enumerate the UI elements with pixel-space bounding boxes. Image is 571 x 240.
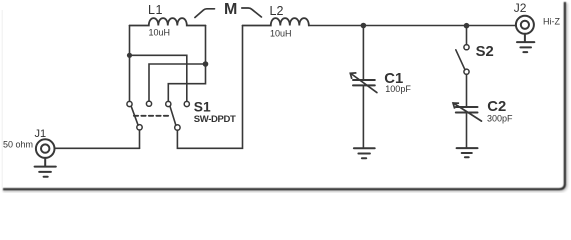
svg-text:100pF: 100pF [385, 84, 411, 94]
capacitor C1 arrow [351, 74, 377, 93]
svg-text:M: M [224, 1, 237, 18]
svg-text:300pF: 300pF [487, 114, 513, 124]
switch S1 linkage dashed [134, 115, 172, 117]
svg-text:10uH: 10uH [149, 28, 171, 38]
switch S2 terminal top [464, 45, 469, 50]
junction node S2 on bus [464, 23, 470, 29]
wire S1 common B down and right to L2 [177, 26, 242, 149]
switch S2 blade [456, 50, 465, 70]
svg-text:50 ohm: 50 ohm [3, 140, 33, 150]
svg-text:J1: J1 [35, 128, 47, 140]
junction node C1 on bus [361, 23, 367, 29]
junction node L1 left / T1 [127, 53, 132, 58]
junction node L1 right / T2 [203, 61, 209, 67]
S1 common A [137, 125, 142, 130]
arrowhead C2 [453, 103, 459, 109]
wire S2 to C2 [466, 74, 468, 107]
connector J2 [516, 16, 534, 34]
svg-text:S2: S2 [476, 44, 494, 60]
S1 terminal T2 [146, 101, 151, 106]
frame shadow bottom-right [3, 2, 566, 190]
svg-text:Hi-Z: Hi-Z [543, 17, 560, 27]
capacitor C2 lead bottom [466, 113, 468, 148]
svg-text:10uH: 10uH [270, 28, 292, 38]
svg-text:L2: L2 [270, 4, 284, 18]
switch S2 terminal bottom [464, 69, 469, 74]
wire L1 right vertical [168, 26, 205, 102]
S1 common B [175, 125, 180, 130]
capacitor C1 plates [353, 80, 375, 85]
S1 terminal T3 [166, 101, 171, 106]
wire S1 common A down [139, 130, 141, 148]
inductor L1 [130, 18, 206, 25]
coupling mark left of M [195, 9, 215, 18]
arrowhead C1 [350, 73, 356, 79]
ground at C1 [354, 148, 375, 158]
ground at J2 [517, 34, 534, 52]
S1 terminal T1 [127, 101, 132, 106]
svg-text:S1: S1 [194, 100, 211, 115]
connector J1 [36, 139, 55, 158]
S1 terminal T4 [184, 101, 189, 106]
switch S1 pole A blade [131, 106, 138, 125]
wire L1 left vertical (L1 to T1) [129, 26, 131, 102]
coupling mark right of M [242, 8, 262, 17]
capacitor C1 lead bottom [362, 85, 364, 147]
svg-text:SW-DPDT: SW-DPDT [194, 114, 236, 125]
inductor L2 [243, 18, 309, 25]
wire J1 to S1 common A [54, 147, 139, 149]
svg-text:L1: L1 [148, 3, 163, 17]
faint left edge [1, 10, 3, 188]
switch S1 pole B blade [170, 106, 176, 125]
switch S2 lead top [466, 26, 468, 45]
wire branch y55 to T4 [130, 55, 187, 101]
wire branch y64 to T2 [149, 64, 206, 101]
wire top bus L2 to J2 [309, 25, 516, 27]
svg-text:J2: J2 [514, 1, 527, 15]
ground at C2 [457, 148, 478, 157]
capacitor C2 plates [456, 107, 478, 113]
capacitor C2 arrow [454, 103, 482, 121]
capacitor C1 lead top [362, 26, 364, 80]
ground at J1 [35, 158, 56, 177]
